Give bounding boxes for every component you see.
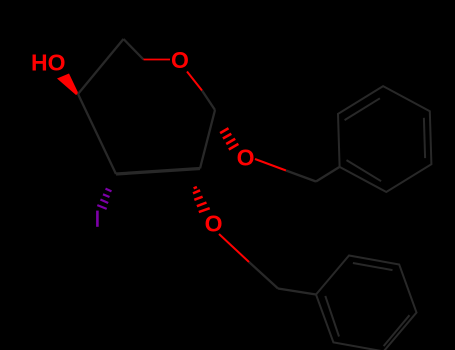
wire bond CH2-ipso benzyl 1 xyxy=(316,167,340,182)
benzene ring 1 (right) xyxy=(338,86,431,192)
wire bond C5-O5 carbon half xyxy=(124,39,144,60)
hashed wedge C2-O2 (red) xyxy=(193,187,210,212)
wire bond C2-C3 (bold front) xyxy=(116,169,200,175)
wire bond O5-C1 carbon half xyxy=(202,91,215,111)
svg-text:O: O xyxy=(171,47,189,73)
wire bond O1-CH2 oxygen half (red) xyxy=(255,159,286,171)
wire bond C1-C2 xyxy=(200,110,215,169)
wedge bond C4-O4 (solid red) xyxy=(57,74,79,96)
wire bond O5-C1 oxygen half (red) xyxy=(187,72,202,91)
wire bond O1-CH2 carbon half xyxy=(286,171,316,182)
wire bond C3-C4 xyxy=(78,94,116,174)
svg-text:HO: HO xyxy=(31,50,66,76)
aromatic inner line 1 xyxy=(353,263,393,270)
wire bond O2-CH2' carbon half xyxy=(249,262,278,289)
svg-text:O: O xyxy=(205,210,223,236)
wire bond C4-C5 xyxy=(78,39,124,94)
wire bond C5-O5 oxygen half (red) xyxy=(144,59,171,61)
label I iodine xyxy=(96,211,99,227)
aromatic inner line 2 xyxy=(384,315,410,346)
svg-text:O: O xyxy=(237,144,255,170)
aromatic inner line 2 xyxy=(424,118,425,158)
hashed wedge C3-I (purple) xyxy=(97,189,111,209)
aromatic inner line 3 xyxy=(325,296,339,337)
wire bond CH2'-ipso benzyl 2 xyxy=(278,289,316,295)
hashed wedge C1-O1 (red) xyxy=(220,128,238,149)
wire bond O2-CH2' oxygen half (red) xyxy=(219,234,249,262)
benzene ring 2 (bottom) xyxy=(316,256,417,350)
aromatic inner line 3 xyxy=(347,160,382,181)
aromatic inner line 1 xyxy=(345,98,380,120)
